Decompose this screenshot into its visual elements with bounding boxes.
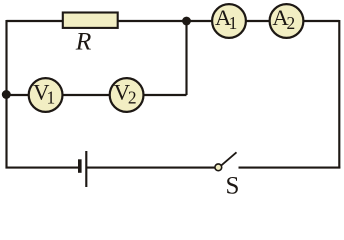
wire vertical connector V-branch to top (185, 21, 187, 95)
junction dot left (V branch to left wire) (2, 90, 11, 99)
svg-text:2: 2 (286, 13, 295, 33)
ammeter A1 (212, 4, 246, 38)
wire bottom middle (battery to switch) (87, 167, 215, 169)
svg-text:1: 1 (46, 88, 55, 108)
ammeter A2 (270, 4, 304, 38)
battery: long thin plate (positive) (85, 151, 87, 187)
junction dot top (connector to top wire) (182, 17, 191, 26)
switch S pivot (215, 164, 222, 171)
svg-text:R: R (75, 27, 92, 56)
svg-text:S: S (226, 173, 240, 196)
wire top (left edge to right edge through R, A1, A2) (7, 20, 340, 22)
svg-text:2: 2 (128, 88, 137, 108)
resistor R (63, 13, 118, 28)
battery: short thick plate (negative) (78, 159, 82, 173)
voltmeter V2 (110, 78, 144, 112)
wire middle branch (voltmeter branch) (7, 94, 187, 96)
svg-text:1: 1 (229, 13, 238, 33)
wire bottom left (to battery) (6, 167, 79, 169)
voltmeter V1 (29, 78, 63, 112)
switch lever (221, 152, 236, 165)
wire bottom right (switch to right edge) (239, 167, 341, 169)
wire left vertical (5, 20, 7, 169)
wire right vertical (338, 20, 340, 169)
